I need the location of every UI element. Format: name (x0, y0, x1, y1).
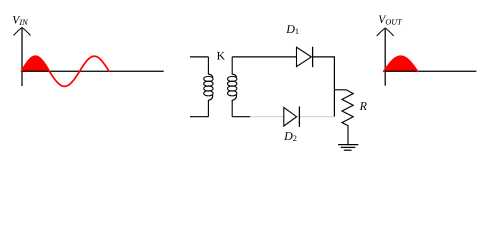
svg-text:K: K (217, 50, 226, 63)
svg-text:R: R (359, 99, 368, 113)
